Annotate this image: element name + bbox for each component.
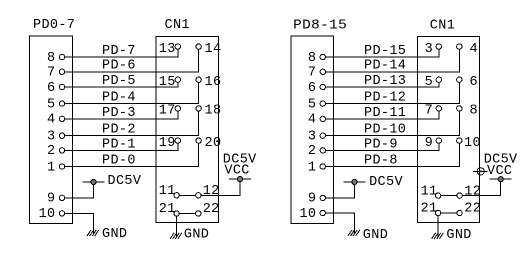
svg-text:GND: GND (446, 228, 471, 243)
PD0-7 pin 5 (47, 97, 65, 112)
svg-text:GND: GND (102, 227, 127, 242)
svg-text:10: 10 (39, 207, 56, 222)
CN1 pin 19 (159, 136, 181, 151)
CN1 pin 7 (425, 104, 442, 119)
wire PD-0 (65, 166, 199, 168)
svg-text:4: 4 (47, 113, 55, 128)
PD8-15 pin 10 (299, 207, 325, 222)
wire PD-11 (326, 118, 439, 120)
PD0-7 pin 3 (47, 130, 65, 145)
wire CN1 pin 16 hook (198, 82, 200, 103)
PD0-7 pin 2 (47, 144, 65, 159)
wire pin9 to DC5V (65, 185, 94, 198)
wire CN1 pin 4 hook (458, 49, 460, 72)
svg-text:6: 6 (470, 75, 478, 90)
svg-text:16: 16 (205, 75, 222, 90)
wire pin11-pin12 (441, 195, 457, 197)
CN1 pin 14 (196, 42, 222, 57)
wire CN1 pin 15 hook (177, 82, 179, 87)
wire PD-9 (326, 149, 439, 151)
PD0-7 pin 8 (47, 51, 65, 66)
wire pin12 to VCC (201, 182, 240, 196)
net label DC5V at pin9 (369, 175, 403, 190)
PD8-15 pin 5 (308, 97, 326, 112)
svg-text:12: 12 (203, 184, 220, 199)
connector PD0-7 body (30, 36, 73, 223)
net label DC5V (223, 153, 257, 168)
power DC5V tap (344, 179, 365, 184)
wire CN1 pin 10 hook (458, 143, 460, 166)
wire pin9 to DC5V (326, 185, 355, 198)
svg-text:8: 8 (470, 104, 478, 119)
PD8-15 pin 1 (308, 160, 326, 175)
net label PD-12 (364, 91, 406, 106)
svg-text:9: 9 (47, 192, 55, 207)
svg-text:5: 5 (308, 97, 316, 112)
CN1 pin 3 (425, 42, 442, 57)
wire CN1 pin 8 hook (458, 111, 460, 136)
PD0-7 pin 4 (47, 113, 65, 128)
svg-text:8: 8 (308, 51, 316, 66)
svg-text:PD-10: PD-10 (364, 123, 406, 138)
label CN1 (430, 18, 455, 33)
svg-text:PD-1: PD-1 (102, 137, 136, 152)
svg-text:10: 10 (464, 136, 481, 151)
svg-text:5: 5 (425, 75, 433, 90)
wire PD-4 (65, 103, 199, 105)
net label PD-1 (102, 137, 136, 152)
svg-text:12: 12 (464, 184, 481, 199)
svg-text:11: 11 (159, 184, 176, 199)
svg-text:20: 20 (205, 136, 222, 151)
wire CN1 pin 3 hook (438, 49, 440, 57)
svg-text:3: 3 (308, 130, 316, 145)
net label PD-10 (364, 123, 406, 138)
svg-text:1: 1 (308, 160, 316, 175)
wire PD-8 (326, 166, 460, 168)
net label DC5V (484, 153, 518, 168)
CN1 pin 8 (457, 104, 478, 119)
CN1 pin 6 (457, 75, 478, 90)
CN1 pin 20 (196, 136, 222, 151)
net label PD-2 (102, 123, 136, 138)
PD8-15 pin 3 (308, 130, 326, 145)
svg-text:PD-2: PD-2 (102, 123, 136, 138)
wire PD-12 (326, 103, 460, 105)
ground under connector (348, 230, 359, 235)
wire CN1 pin 20 hook (198, 143, 200, 166)
svg-text:17: 17 (159, 104, 176, 119)
svg-text:PD-14: PD-14 (364, 59, 406, 74)
wire pin10 to ground (65, 213, 94, 233)
net label PD-5 (102, 74, 136, 89)
svg-text:VCC: VCC (224, 163, 249, 178)
wire CN1 pin 19 hook (177, 143, 179, 150)
CN1 pin 11 (159, 184, 180, 199)
PD0-7 pin 1 (47, 160, 65, 175)
svg-text:DC5V: DC5V (108, 174, 142, 189)
ground under CN1 (432, 233, 443, 238)
ground under connector (87, 230, 98, 235)
wire PD-7 (65, 56, 178, 58)
svg-text:15: 15 (159, 75, 176, 90)
svg-text:2: 2 (308, 144, 316, 159)
svg-text:21: 21 (159, 202, 176, 217)
svg-text:VCC: VCC (487, 164, 512, 179)
wire CN1 pin 7 hook (438, 111, 440, 119)
wire PD-10 (326, 135, 460, 137)
svg-text:3: 3 (47, 130, 55, 145)
PD8-15 pin 2 (308, 144, 326, 159)
svg-text:GND: GND (363, 228, 388, 243)
svg-text:PD-5: PD-5 (102, 74, 136, 89)
CN1 pin 15 (159, 75, 181, 90)
svg-text:4: 4 (470, 42, 478, 57)
wire PD-2 (65, 135, 199, 137)
svg-text:6: 6 (47, 81, 55, 96)
label GND under connector (363, 228, 388, 243)
PD0-7 pin 10 (39, 207, 65, 222)
PD0-7 pin 7 (47, 66, 65, 81)
CN1 pin 11 (421, 184, 441, 199)
svg-text:10: 10 (299, 207, 316, 222)
label GND under connector (102, 227, 127, 242)
wire CN1 pin 13 hook (177, 49, 179, 57)
wire pin21-pin22 (441, 212, 457, 214)
CN1 pin 13 (159, 42, 181, 57)
wire PD-14 (326, 71, 460, 73)
power DC5V VCC tap (490, 177, 511, 182)
CN1 pin 22 (457, 201, 481, 216)
PD0-7 pin 9 (47, 192, 65, 207)
PD8-15 pin 9 (308, 192, 326, 207)
svg-text:22: 22 (464, 201, 481, 216)
wire PD-15 (326, 56, 439, 58)
svg-text:CN1: CN1 (165, 18, 190, 33)
PD8-15 pin 8 (308, 51, 326, 66)
svg-text:2: 2 (47, 144, 55, 159)
svg-text:1: 1 (47, 160, 55, 175)
net label PD-3 (102, 106, 136, 121)
CN1 pin 18 (196, 104, 222, 119)
wire CN1 pin 5 hook (438, 82, 440, 87)
net label VCC (224, 163, 249, 178)
connector PD8-15 body (291, 36, 334, 223)
wire CN1 pin 14 hook (198, 49, 200, 72)
connector CN1 body (417, 36, 479, 222)
net label PD-13 (364, 74, 406, 89)
ground under CN1 (170, 233, 181, 238)
svg-text:3: 3 (425, 42, 433, 57)
svg-text:9: 9 (425, 136, 433, 151)
svg-text:7: 7 (47, 66, 55, 81)
wire PD-3 (65, 118, 178, 120)
wire CN1 pin 9 hook (438, 143, 440, 150)
svg-text:PD-12: PD-12 (364, 91, 406, 106)
CN1 pin 21 (159, 202, 180, 217)
CN1 pin 10 (457, 136, 481, 151)
connector CN1 body (156, 36, 218, 222)
net label PD-6 (102, 59, 136, 74)
svg-text:CN1: CN1 (430, 18, 455, 33)
svg-text:8: 8 (47, 51, 55, 66)
wire pin21-pin22 (179, 213, 195, 215)
net label PD-8 (364, 153, 398, 168)
svg-text:PD-9: PD-9 (364, 137, 398, 152)
net label PD-9 (364, 137, 398, 152)
svg-text:PD-8: PD-8 (364, 153, 398, 168)
power DC5V VCC tap (230, 177, 251, 182)
wire CN1 pin 17 hook (177, 111, 179, 119)
wire pin21 to ground (176, 216, 178, 236)
svg-text:PD-15: PD-15 (364, 44, 406, 59)
CN1 pin 12 (457, 184, 481, 199)
wire pin10 to ground (326, 213, 355, 234)
svg-text:PD-11: PD-11 (364, 106, 406, 121)
svg-text:9: 9 (308, 192, 316, 207)
label PD0-7 (33, 18, 75, 33)
CN1 pin 5 (425, 75, 442, 90)
power DC5V tap (83, 179, 104, 184)
CN1 pin 12 (196, 184, 220, 199)
svg-text:PD0-7: PD0-7 (33, 18, 75, 33)
svg-text:21: 21 (421, 201, 438, 216)
svg-text:4: 4 (308, 113, 316, 128)
PD8-15 pin 4 (308, 113, 326, 128)
net label PD-15 (364, 44, 406, 59)
label GND under CN1 (184, 227, 209, 242)
svg-text:7: 7 (308, 66, 316, 81)
label GND under CN1 (446, 228, 471, 243)
net label PD-14 (364, 59, 406, 74)
PD0-7 pin 6 (47, 81, 65, 96)
svg-text:7: 7 (425, 104, 433, 119)
svg-text:6: 6 (308, 81, 316, 96)
svg-text:22: 22 (203, 202, 220, 217)
svg-text:PD-7: PD-7 (102, 44, 136, 59)
wire pin21 to ground (437, 216, 439, 237)
CN1 pin 17 (159, 104, 181, 119)
net label PD-0 (102, 153, 136, 168)
wire CN1 pin 18 hook (198, 111, 200, 136)
CN1 pin 21 (421, 201, 441, 216)
svg-text:11: 11 (421, 184, 438, 199)
wire PD-13 (326, 86, 439, 88)
PD8-15 pin 6 (308, 81, 326, 96)
wire PD-6 (65, 71, 199, 73)
label PD8-15 (293, 18, 347, 33)
net label DC5V at pin9 (108, 174, 142, 189)
svg-text:PD-13: PD-13 (364, 74, 406, 89)
label CN1 (165, 18, 190, 33)
PD8-15 pin 7 (308, 66, 326, 81)
svg-text:PD-3: PD-3 (102, 106, 136, 121)
wire PD-1 (65, 149, 178, 151)
svg-text:5: 5 (47, 97, 55, 112)
wire pin12 to VCC (462, 182, 500, 196)
svg-text:DC5V: DC5V (369, 175, 403, 190)
net label PD-7 (102, 44, 136, 59)
svg-text:PD8-15: PD8-15 (293, 18, 347, 33)
svg-text:GND: GND (184, 227, 209, 242)
CN1 pin 4 (457, 42, 478, 57)
wire CN1 pin 6 hook (458, 82, 460, 103)
wire pin11-pin12 (179, 194, 195, 196)
svg-text:18: 18 (205, 104, 222, 119)
CN1 pin 22 (196, 202, 220, 217)
svg-text:13: 13 (159, 42, 176, 57)
net label PD-11 (364, 106, 406, 121)
svg-text:PD-6: PD-6 (102, 59, 136, 74)
CN1 pin 16 (196, 75, 222, 90)
wire PD-5 (65, 86, 178, 88)
svg-text:PD-4: PD-4 (102, 91, 136, 106)
svg-text:PD-0: PD-0 (102, 153, 136, 168)
CN1 pin 9 (425, 136, 442, 151)
net label PD-4 (102, 91, 136, 106)
power VCC tap on CN1 edge (474, 167, 488, 175)
net label VCC (487, 164, 512, 179)
svg-text:14: 14 (205, 42, 222, 57)
svg-text:19: 19 (159, 136, 176, 151)
